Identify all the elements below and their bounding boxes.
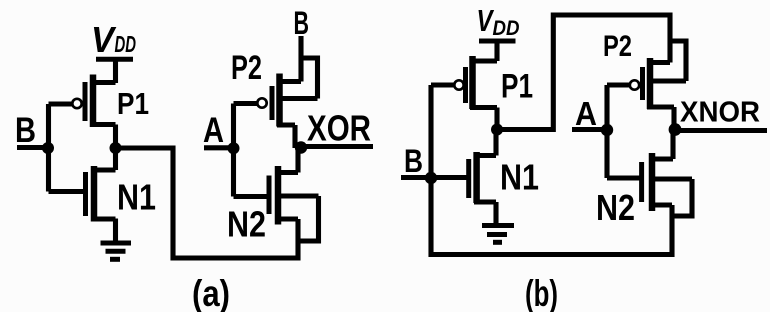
svg-text:B: B xyxy=(294,5,310,41)
svg-text:V: V xyxy=(91,19,117,60)
wire P1 drain to node (b) xyxy=(494,108,499,132)
wire N1 drain to node xyxy=(113,146,118,170)
wire B input (b) xyxy=(401,175,467,180)
svg-text:P1: P1 xyxy=(501,68,533,106)
transistor N1 (NMOS) (b) xyxy=(469,152,496,203)
svg-text:DD: DD xyxy=(115,31,137,57)
svg-text:N2: N2 xyxy=(227,204,266,245)
node inverter output dot (a) xyxy=(110,142,122,154)
transistor P1 (PMOS) xyxy=(85,75,116,128)
VDD supply symbol (b) xyxy=(479,41,516,61)
P2 body loop wire xyxy=(301,58,318,99)
wire XNOR output xyxy=(675,128,767,133)
N2 body loop wire (a) xyxy=(298,196,319,241)
svg-text:(b): (b) xyxy=(525,273,558,312)
svg-text:(a): (a) xyxy=(192,273,230,312)
VDD supply symbol (a) xyxy=(96,59,133,83)
wire P2 drain to XOR node xyxy=(292,125,297,148)
svg-text:N1: N1 xyxy=(500,157,539,198)
wire A vertical to gates (a) xyxy=(231,104,236,197)
wire B vertical (b) xyxy=(428,85,433,257)
transistor N2 (NMOS) (b) xyxy=(642,153,692,211)
wire inverter output to N2 source (a) xyxy=(116,148,299,258)
wire A input (b) xyxy=(572,127,607,132)
svg-text:XOR: XOR xyxy=(307,108,371,149)
wire P2 drain to XNOR node (b) xyxy=(671,107,676,130)
transistor P2 (PMOS) xyxy=(272,74,318,127)
transistor P1 (PMOS) (b) xyxy=(466,56,498,109)
wire B to P2 source xyxy=(298,36,303,82)
wire N2 gate (b) xyxy=(607,175,640,180)
P2 gate bubble (b) xyxy=(630,80,639,89)
node XNOR output dot xyxy=(669,123,682,136)
wire P1 gate (b) xyxy=(431,82,454,87)
wire N1 source to ground (b) xyxy=(493,202,498,226)
wire P1 gate xyxy=(49,101,73,106)
svg-text:P2: P2 xyxy=(603,30,632,63)
node B junction dot xyxy=(42,142,54,154)
svg-text:N1: N1 xyxy=(117,177,156,218)
P2 body loop wire (b) xyxy=(670,41,686,81)
node A junction dot (b) xyxy=(601,124,613,136)
transistor N1 (NMOS) xyxy=(86,166,116,222)
wire inverter output to P2 source (b) xyxy=(497,15,670,130)
wire P2 gate xyxy=(234,101,258,106)
svg-text:XNOR: XNOR xyxy=(680,97,760,129)
svg-text:B: B xyxy=(15,111,36,150)
wire P1 drain to node xyxy=(113,125,118,151)
N2 body loop wire (b) xyxy=(672,179,692,216)
svg-text:DD: DD xyxy=(493,17,520,40)
wire N1 drain to node (b) xyxy=(493,130,498,156)
wire B to N2 source bottom (b) xyxy=(431,205,672,255)
wire A input xyxy=(204,145,234,150)
node inverter output dot (b) xyxy=(491,124,503,136)
svg-text:P2: P2 xyxy=(231,49,262,87)
wire XOR output xyxy=(301,144,373,149)
ground symbol (a) xyxy=(101,243,132,259)
wire N2 gate (a) xyxy=(234,194,267,199)
wire B input xyxy=(17,145,48,150)
VDD label (a) xyxy=(91,19,136,60)
node B junction dot (b) xyxy=(425,172,437,184)
P1 gate bubble (b) xyxy=(454,80,463,89)
ground symbol (b) xyxy=(482,226,514,243)
svg-text:A: A xyxy=(575,95,597,132)
wire N1 gate xyxy=(49,189,84,194)
svg-text:N2: N2 xyxy=(596,187,635,228)
node XOR output dot xyxy=(295,141,307,153)
P2 gate bubble xyxy=(257,98,266,107)
wire N1 source to ground xyxy=(113,219,118,244)
wire N2 drain to XNOR node (b) xyxy=(670,130,675,159)
P1 gate bubble xyxy=(72,99,81,108)
wire A vertical to gates (b) xyxy=(604,85,609,178)
transistor N2 (NMOS) (a) xyxy=(269,166,319,225)
wire P2 gate (b) xyxy=(607,82,630,87)
node A junction dot (a) xyxy=(228,142,240,154)
svg-text:P1: P1 xyxy=(117,86,149,121)
svg-text:B: B xyxy=(404,143,423,179)
wire B vertical to gates xyxy=(46,104,51,192)
VDD label (b) xyxy=(477,4,520,40)
transistor P2 (PMOS) (b) xyxy=(643,58,687,109)
svg-text:A: A xyxy=(203,111,224,150)
wire N2 drain to XOR node (a) xyxy=(295,148,300,173)
